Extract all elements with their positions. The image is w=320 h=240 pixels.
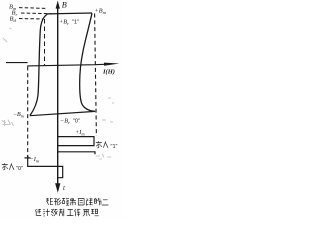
store-1 pulse (rightward rectangle) <box>58 137 94 146</box>
svg-text:"1": "1" <box>111 144 118 150</box>
Bd dashed leader <box>19 18 44 21</box>
ghost gray marks (bleed-through) <box>2 28 115 126</box>
t axis bottom arrowhead <box>55 183 60 193</box>
store-1 second pulse line <box>58 152 95 154</box>
svg-text:−Bm: −Bm <box>13 112 24 118</box>
hysteresis loop left branch <box>30 14 48 116</box>
B axis (vertical, doubles as t axis downward) <box>57 7 59 184</box>
svg-text:−Br "0": −Br "0" <box>60 118 80 126</box>
dashed vertical at knee (Bd) <box>44 19 46 66</box>
svg-text:B: B <box>62 1 67 10</box>
caption line 1: "ju xing ci zhi hui xian de er" fake glyphs <box>46 198 108 205</box>
B axis top arrowhead <box>56 1 60 9</box>
caption line 2: "wei ji shu zhi gong zuo yuan li" fake glyphs <box>35 209 98 216</box>
svg-text:+Br "1": +Br "1" <box>59 19 79 27</box>
dashed vertical +Im line <box>95 14 97 137</box>
store-0 pulse (leftward rectangle) <box>25 155 63 178</box>
svg-text:I(H): I(H) <box>102 69 115 76</box>
dashed vertical -Im line <box>27 67 29 158</box>
svg-text:"0": "0" <box>16 166 23 172</box>
ghost text under store-1 label <box>96 154 111 159</box>
Br dashed leader <box>21 12 52 15</box>
hysteresis loop right branch <box>80 13 95 111</box>
hysteresis loop bottom branch <box>30 111 95 115</box>
hysteresis loop top branch <box>48 12 93 15</box>
I axis main segment <box>27 64 105 66</box>
I axis left segment <box>6 62 28 64</box>
I axis arrowhead <box>104 63 120 66</box>
cunru "1" label (store 1) : fake CJK glyphs + quoted 1 <box>96 141 108 148</box>
Bm dashed leader <box>19 7 47 10</box>
cunru "0" label (store 0) <box>2 163 14 170</box>
